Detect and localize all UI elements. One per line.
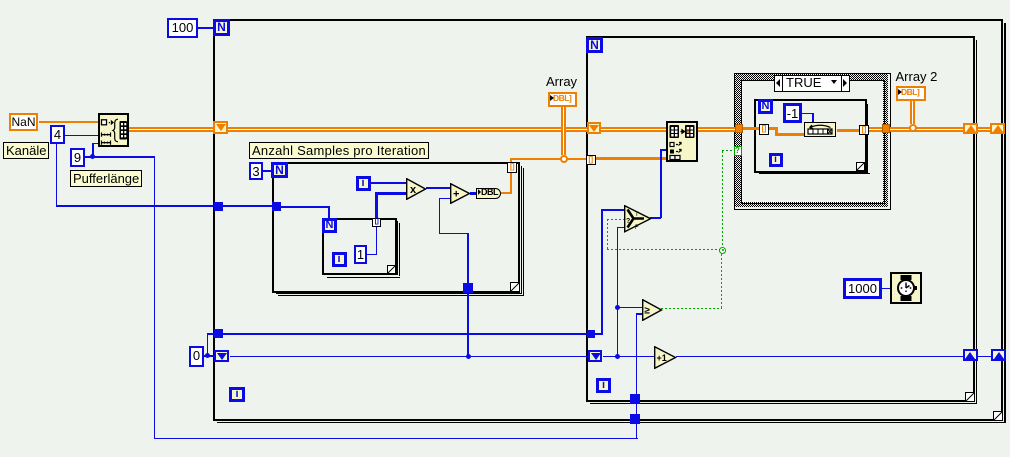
for loop 3 shadow bottom	[276, 293, 522, 294]
green boolean wire geq output right and up	[661, 308, 722, 309]
wire 100 to N	[198, 27, 214, 29]
case right tunnel (orange)	[882, 124, 890, 133]
2D array wire init to SR1	[128, 127, 213, 132]
increment +1 node	[654, 346, 677, 369]
wire 0 junction up to tunnel	[207, 333, 209, 356]
wire 1000 to wait	[881, 288, 890, 290]
for loop 2 (right inner for loop) frame	[586, 36, 975, 402]
case selector ? terminal	[734, 146, 742, 156]
tunnel loop1 (0 wire)	[214, 329, 223, 338]
Select node	[624, 205, 652, 233]
constant 4	[50, 125, 65, 144]
case structure border (checkered)	[734, 73, 891, 210]
for loop 4 shadow bottom	[325, 274, 398, 275]
orange wire DBL out right	[501, 192, 512, 194]
2D array wire between right shift registers	[978, 127, 991, 132]
wire 1 constant to loop4 tunnel	[367, 254, 377, 256]
constant 1000	[843, 278, 882, 299]
shift register right loop1 (orange, up arrow)	[990, 123, 1005, 134]
for loop 3 corner dog-ear	[510, 282, 520, 292]
label Array	[546, 75, 577, 88]
for loop 1 shadow bottom	[217, 422, 1006, 424]
case selector label	[774, 75, 850, 92]
constant 9	[70, 148, 85, 167]
shift register right loop2 (blue, up arrow)	[963, 349, 978, 361]
wire 9 right to x=154	[93, 156, 154, 158]
junction dot x=467	[466, 354, 471, 359]
constant 0	[189, 346, 204, 367]
wire junction to init array input	[92, 143, 98, 145]
for loop 3 (middle for loop) frame	[272, 162, 520, 293]
2D array wire replace node to case	[698, 127, 735, 132]
svg-text:T: T	[635, 212, 639, 218]
wire junction up to Initialize Array	[92, 143, 94, 158]
greater-or-equal node	[642, 299, 663, 321]
svg-text:x: x	[410, 184, 417, 196]
index tunnel loop3 top (orange)	[507, 162, 517, 173]
node 0 junction dot	[205, 353, 210, 358]
shift register left loop2 (orange, down arrow)	[587, 122, 601, 134]
orange wire tunnel up to y=157.5	[510, 158, 512, 165]
loop 1 count terminal N	[213, 19, 230, 36]
indicator Array 2 [DBL]	[896, 86, 926, 101]
orange wire junction to loop2 index tunnel	[565, 158, 586, 160]
for loop 2 shadow right	[976, 40, 978, 403]
iteration terminal i loop4	[332, 252, 347, 267]
for loop 5 corner dog-ear	[856, 162, 865, 171]
orange wire up to loop3 top tunnel	[510, 164, 512, 194]
wire i of loop3 to multiply	[370, 182, 406, 184]
DBL conversion node	[476, 188, 501, 199]
wire inside loop2 SR to +1	[603, 356, 654, 358]
wire NaN to Initialize Array	[39, 121, 98, 123]
wire 9 to junction	[85, 156, 93, 158]
add node	[450, 183, 471, 204]
for loop 1 shadow right	[1004, 23, 1006, 422]
for loop 3 shadow right	[521, 166, 522, 293]
svg-text:F: F	[635, 225, 639, 231]
shift register right loop2 (orange, up arrow)	[963, 123, 978, 134]
2D array wire SR2 to replace node	[601, 127, 666, 132]
label Kanäle	[3, 142, 49, 159]
wire loop3 bottom tunnel down to y=356	[467, 292, 469, 357]
index tunnel loop2 left (orange)	[586, 155, 596, 165]
wire 9 up x=636 through bottom tunnels to comparator	[636, 313, 638, 438]
node 9 junction dot	[90, 154, 95, 159]
orange junction hollow circle (Array 2)	[909, 124, 917, 132]
shift register right loop1 (blue, up arrow)	[991, 349, 1006, 361]
wire to geq top input	[617, 307, 643, 309]
2D array vertical wire Array 2 indicator down	[910, 100, 915, 124]
wire +1 out to right SR	[676, 356, 963, 358]
wire inside loop2 tunnel up to select t input	[595, 333, 602, 335]
for loop 2 corner dog-ear	[965, 392, 975, 402]
junction dot x=617.5	[615, 354, 620, 359]
orange thick wire rotate icon to loop5 right tunnel	[837, 129, 861, 132]
wire -1 to rotate icon	[802, 113, 813, 115]
wire multiply to add	[426, 187, 450, 190]
Wait ms icon	[890, 272, 922, 304]
constant NaN	[9, 113, 38, 131]
for loop 5 shadow bottom	[757, 171, 868, 172]
svg-text:+: +	[453, 189, 459, 201]
wire vertical x=617.5 select f input	[617, 227, 619, 357]
wire into geq lower input	[636, 313, 643, 315]
green wire junction left to select s input	[607, 249, 720, 250]
orange thick wire inside case left	[742, 127, 778, 130]
Replace Array Subset icon	[666, 121, 698, 162]
2D array wire loop5 to case right tunnel	[867, 127, 882, 132]
wire y=356 shift register run	[230, 356, 589, 358]
label Anzahl Samples pro Iteration	[249, 142, 429, 159]
svg-text:+1: +1	[656, 353, 666, 363]
loop 3 count terminal N	[271, 162, 288, 178]
wire 4 to Initialize Array	[65, 135, 98, 137]
2D array wire SR1 to SR2	[228, 127, 587, 132]
label Pufferlänge	[70, 170, 142, 187]
index tunnel loop4 top (blue)	[372, 218, 381, 227]
wire 4 right along y=206 to loop3	[56, 205, 273, 207]
loop 5 count terminal N	[758, 99, 773, 114]
tunnel loop2 left (blue)	[587, 330, 595, 339]
tunnel loop1 bottom (blue)	[630, 414, 640, 424]
Initialize Array icon	[98, 113, 129, 147]
iteration terminal i loop1	[229, 387, 245, 402]
green junction circle	[719, 247, 726, 254]
for loop 1 corner dog-ear	[993, 411, 1003, 421]
for loop 5 (for loop inside case) frame	[754, 99, 867, 173]
orange junction hollow circle (Array)	[560, 155, 568, 163]
wire add lower input	[439, 198, 451, 200]
Rotate 1D Array icon	[804, 122, 836, 137]
index tunnel loop5 right (orange)	[859, 125, 869, 136]
shift register left loop1 (orange, down arrow)	[213, 121, 228, 134]
for loop 1 (outer big for loop) frame	[213, 19, 1003, 421]
for loop 4 corner dog-ear	[387, 265, 396, 274]
label Array 2	[896, 70, 938, 83]
wire 4 down	[56, 144, 58, 206]
wire add to DBL	[470, 192, 477, 195]
wire 3 to N loop3	[263, 170, 271, 172]
constant -1	[783, 103, 802, 123]
index tunnel loop5 left (orange)	[759, 124, 769, 135]
green wire junction up to case ? terminal	[722, 151, 723, 247]
wire 9 down x=154	[154, 156, 156, 439]
tunnel loop2 bottom (blue)	[630, 394, 640, 404]
wire between right blue SRs	[978, 356, 992, 358]
loop 4 count terminal N	[322, 218, 337, 233]
svg-text:≥: ≥	[645, 305, 651, 316]
iteration terminal i loop2	[596, 378, 611, 393]
wire drop to N of loop4	[328, 206, 330, 218]
shift register left loop2 (blue, down arrow)	[588, 350, 602, 362]
2D array wire case to right shift registers	[889, 127, 964, 132]
wire 0 to junction and shift register	[204, 355, 214, 357]
wire 4 inside loop3 to small loop N	[281, 206, 329, 208]
junction dot x=617.5 y=307	[615, 305, 620, 310]
wire y=333 long run to loop2	[223, 333, 589, 335]
loop 2 count terminal N	[586, 37, 603, 54]
svg-text:?: ?	[626, 218, 630, 225]
constant 100	[167, 18, 198, 38]
thick wire loop4 tunnel up to multiply lower input	[375, 192, 378, 218]
case left tunnel (orange)	[735, 124, 743, 133]
wire select output up to replace node	[650, 217, 661, 219]
iteration terminal i loop5	[769, 153, 783, 167]
multiply node	[406, 178, 427, 200]
for loop 4 shadow right	[397, 221, 398, 274]
tunnel loop3 bottom	[463, 283, 473, 293]
tunnel loop3 left (4 wire)	[272, 202, 281, 211]
wire 9 bottom run to x=636	[154, 438, 638, 440]
orange wire y=157.5 to hollow junction	[510, 158, 562, 160]
tunnel loop1 (4 wire)	[214, 202, 223, 211]
orange thick wire tunnel to replace array node	[594, 157, 666, 160]
for loop 4 (small inner-inner for loop) frame	[322, 218, 397, 275]
for loop 5 shadow right	[865, 102, 866, 172]
for loop 2 shadow bottom	[590, 403, 977, 405]
2D array vertical wire Array indicator down	[561, 107, 566, 155]
constant 3	[249, 162, 263, 180]
shift register left loop1 (blue, down arrow)	[214, 350, 229, 362]
constant 1	[354, 245, 367, 264]
iteration terminal i loop3	[356, 176, 371, 191]
indicator Array [DBL]	[548, 92, 577, 107]
